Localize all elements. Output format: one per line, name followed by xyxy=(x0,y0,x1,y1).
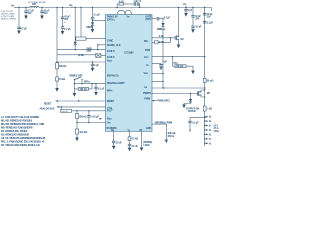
wire y122.5 join xyxy=(77,122,106,124)
svg-text:1 kΩ: 1 kΩ xyxy=(207,109,212,111)
transistor Q2 xyxy=(152,93,198,95)
svg-text:4.7 µF: 4.7 µF xyxy=(28,10,35,13)
resistor R12 sense on rail xyxy=(203,78,206,82)
ground xyxy=(40,16,44,20)
transistor Q1 xyxy=(175,35,178,40)
svg-text:0.1 µF: 0.1 µF xyxy=(192,123,199,125)
node rail taps xyxy=(204,116,212,119)
wire y49.7 xyxy=(57,49,106,51)
svg-text:R1: VISHAY WSLP3921L5F08 2 mΩ: R1: VISHAY WSLP3921L5F08 2 mΩ xyxy=(1,144,40,147)
svg-text:ITH: ITH xyxy=(146,65,148,67)
node junction x92.5 y20.4 xyxy=(92,20,93,21)
svg-text:FILTER: FILTER xyxy=(188,111,196,113)
svg-text:PWM: PWM xyxy=(145,99,151,101)
svg-text:SHARE_CLK: SHARE_CLK xyxy=(107,44,121,47)
svg-text:(INTVCC OPEN): (INTVCC OPEN) xyxy=(1,19,16,21)
svg-text:OPTIONAL FILTER: OPTIONAL FILTER xyxy=(28,1,46,4)
svg-text:0.01 µF: 0.01 µF xyxy=(91,116,99,118)
svg-text:EXTVCC: EXTVCC xyxy=(107,20,116,22)
svg-text:10 kΩ: 10 kΩ xyxy=(59,79,65,81)
svg-text:400 kHz: 400 kHz xyxy=(167,132,176,135)
svg-text:1.8VS: 1.8VS xyxy=(213,131,219,133)
svg-text:VE: VE xyxy=(209,134,212,136)
wire ISNS y88 xyxy=(152,87,205,89)
svg-text:PWM (SRC): PWM (SRC) xyxy=(158,101,170,103)
diode D4 xyxy=(190,93,191,94)
capacitor C6 0.1uF on drop xyxy=(92,8,94,18)
capacitor C8 0.1uF xyxy=(157,17,159,21)
wire rail end drop xyxy=(211,8,213,12)
svg-text:50V: 50V xyxy=(44,13,48,15)
svg-text:GND: GND xyxy=(146,128,151,130)
resistor R9 820k xyxy=(76,111,78,114)
svg-text:47 µF: 47 µF xyxy=(64,16,70,19)
svg-text:PWRTG: PWRTG xyxy=(143,93,152,95)
svg-text:1 µF ×2: 1 µF ×2 xyxy=(134,0,142,3)
resistor R6 10k xyxy=(56,77,59,81)
svg-text:RESET: RESET xyxy=(107,101,115,103)
wire arc hop 2 to rail xyxy=(125,10,131,14)
node input arrow xyxy=(100,118,103,120)
capacitor C12 1uF xyxy=(92,62,94,64)
svg-text:ISN: ISN xyxy=(145,87,148,89)
svg-text:INTERNAL PWM: INTERNAL PWM xyxy=(155,122,172,125)
wire ground rail left xyxy=(56,8,58,63)
wire sync stub bottom right xyxy=(152,124,166,140)
wire top VIN rail right segment xyxy=(39,7,211,9)
resistor R8 100k xyxy=(61,109,72,112)
svg-text:VF: VF xyxy=(209,139,211,141)
capacitor C7 1uF x2 xyxy=(134,2,139,5)
ground xyxy=(165,139,168,141)
svg-text:820 kΩ: 820 kΩ xyxy=(79,116,86,118)
svg-text:WPON: WPON xyxy=(84,82,90,84)
svg-text:400 Hz: 400 Hz xyxy=(167,135,175,138)
svg-text:SDA/SCL/ALERT: SDA/SCL/ALERT xyxy=(107,82,125,85)
svg-text:4.7 µF: 4.7 µF xyxy=(195,26,202,29)
svg-text:VOUT: VOUT xyxy=(144,57,149,59)
svg-text:MBRS: MBRS xyxy=(87,27,94,29)
capacitor C4 470uF polarized xyxy=(62,8,64,18)
capacitor C5 2.2uF xyxy=(61,27,64,28)
svg-text:UPC: UPC xyxy=(87,51,92,53)
wire ith stub y73.6 xyxy=(152,73,163,75)
ferrite bead FB1 xyxy=(30,6,40,7)
svg-text:1.5 A: 1.5 A xyxy=(213,127,219,130)
ground xyxy=(61,31,65,35)
capacitor C15 ith xyxy=(152,63,161,66)
resistor R10 43.2k xyxy=(76,123,78,130)
svg-text:50 mΩ: 50 mΩ xyxy=(207,81,214,83)
svg-text:4.7 kΩ: 4.7 kΩ xyxy=(132,138,139,141)
capacitor C13 0.1uF xyxy=(95,84,97,88)
node rail junction x81 xyxy=(80,7,81,8)
svg-text:43.2 kΩ: 43.2 kΩ xyxy=(79,131,87,134)
svg-text:LTC3884: LTC3884 xyxy=(124,52,134,55)
wire WP y83.7 xyxy=(74,83,105,85)
svg-text:25V: 25V xyxy=(195,18,199,20)
wire stub y81.4 xyxy=(152,80,163,82)
wire analog bus y106.9 xyxy=(57,106,106,108)
wire to EXTVCC pin xyxy=(93,19,106,21)
rt drop xyxy=(141,131,143,147)
wire PWM stub xyxy=(152,100,157,102)
resistor R15 xyxy=(155,41,158,44)
svg-text:WPTT: WPTT xyxy=(107,90,112,92)
svg-text:50V: 50V xyxy=(28,13,32,15)
svg-text:VOUT: VOUT xyxy=(107,111,112,113)
node rail junction x178.5 xyxy=(178,7,179,8)
capacitor C9 1uF x186 xyxy=(185,8,187,10)
svg-text:PWM 1.5V: PWM 1.5V xyxy=(107,16,118,18)
svg-text:(SVT): (SVT) xyxy=(146,19,152,21)
wire right vertical x163 xyxy=(162,40,164,88)
svg-text:BG1: BG1 xyxy=(144,41,148,43)
ground xyxy=(17,31,21,35)
svg-text:2.2 µF: 2.2 µF xyxy=(64,29,71,31)
svg-text:RSNS: RSNS xyxy=(107,119,112,121)
wire gate network xyxy=(152,38,171,43)
resistor R11 100k xyxy=(173,57,176,66)
resistor R7 430k xyxy=(74,84,78,93)
resistor R2 above rail xyxy=(117,4,119,8)
pushbutton SW1 xyxy=(57,54,96,56)
svg-text:VDD33: VDD33 xyxy=(107,60,112,62)
left subcircuit resistor R4 xyxy=(76,37,86,40)
wire drop to R8 xyxy=(60,107,62,111)
capacitor C16 0.1uF tp xyxy=(190,118,205,122)
svg-text:(1.5k): (1.5k) xyxy=(78,55,84,57)
capacitor C3 10uF 50V xyxy=(41,8,43,12)
capacitor C11 marks on rail xyxy=(203,14,206,16)
wire arc hop 1 to rail xyxy=(117,10,125,14)
capacitor C17 xyxy=(113,131,115,141)
svg-text:15 V: 15 V xyxy=(213,125,218,127)
resistor R5 360k on left rail xyxy=(56,63,59,69)
capacitor C10 stack x193 xyxy=(192,8,194,16)
svg-text:PSM: PSM xyxy=(145,50,150,52)
wire output rail right xyxy=(204,8,206,79)
node rail junction x75.2 xyxy=(75,7,76,8)
svg-text:SYNC: SYNC xyxy=(107,41,114,43)
wire VOUT long y56.7 xyxy=(152,56,205,58)
svg-text:4.7 µF: 4.7 µF xyxy=(164,16,171,19)
wire drop x81 to resistor R3 xyxy=(80,8,82,38)
svg-text:VSNS: VSNS xyxy=(144,73,148,75)
svg-text:2.2 nF: 2.2 nF xyxy=(132,146,139,148)
wire TG stub to FET xyxy=(152,37,175,39)
svg-text:0.1 µF: 0.1 µF xyxy=(98,88,105,90)
svg-text:(SENSE): (SENSE) xyxy=(143,142,152,144)
wire RESET y101 xyxy=(56,100,106,102)
wire boost stub xyxy=(152,18,157,20)
svg-text:5.1Ω: 5.1Ω xyxy=(159,36,164,38)
diode D2 xyxy=(162,19,164,23)
svg-text:22 nF: 22 nF xyxy=(116,143,122,145)
diode D1 xyxy=(92,20,94,22)
svg-text:100 kΩ: 100 kΩ xyxy=(61,111,68,113)
svg-text:FAULT0: FAULT0 xyxy=(107,50,115,53)
svg-text:FAULT1: FAULT1 xyxy=(107,56,115,59)
svg-text:1 µF: 1 µF xyxy=(163,62,168,64)
svg-text:2.2 µF: 2.2 µF xyxy=(207,22,214,24)
svg-text:RESET: RESET xyxy=(44,103,52,105)
wire top VIN rail left segment xyxy=(14,7,30,9)
svg-text:4 kΩ: 4 kΩ xyxy=(119,1,124,4)
svg-text:1 MHz: 1 MHz xyxy=(143,145,150,147)
capacitor C2 47uF 50V xyxy=(25,8,27,12)
svg-text:25V: 25V xyxy=(207,17,211,19)
svg-text:ANALOG BUS: ANALOG BUS xyxy=(40,108,55,111)
svg-text:100 kΩ: 100 kΩ xyxy=(176,66,183,68)
wire drop x75.2 xyxy=(74,8,76,42)
svg-text:0.1 µF: 0.1 µF xyxy=(94,14,101,16)
node rail junction x57 xyxy=(56,7,57,8)
svg-text:360 kΩ: 360 kΩ xyxy=(59,66,66,68)
IC U1 LTC3884 body xyxy=(106,15,153,132)
resistor R14 + capacitor C18 xyxy=(129,131,131,137)
capacitor C1 4.7uF xyxy=(18,8,20,28)
resistor R13 on rail xyxy=(203,106,206,111)
svg-text:1 µF: 1 µF xyxy=(188,10,193,12)
diode D3 xyxy=(74,42,77,45)
ground xyxy=(24,16,28,20)
svg-text:430 kΩ: 430 kΩ xyxy=(80,88,87,91)
capacitor C14 0.01uF xyxy=(88,111,90,116)
node rail junction x92.5 xyxy=(92,7,93,8)
svg-text:1 µF: 1 µF xyxy=(94,65,99,67)
wire VDD33 y62 xyxy=(57,61,106,63)
svg-text:VIN: VIN xyxy=(127,16,130,18)
svg-text:4.7 µF: 4.7 µF xyxy=(21,28,28,31)
wire x97.8 up xyxy=(98,45,106,50)
